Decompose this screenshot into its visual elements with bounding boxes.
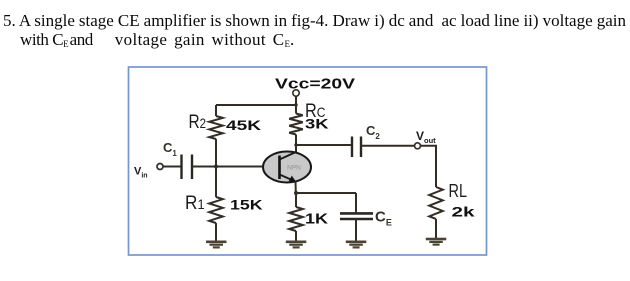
svg-text:45K: 45K [226, 117, 261, 133]
capacitor C1 [182, 155, 193, 180]
svg-text:C2: C2 [366, 123, 380, 141]
ground below RE [286, 241, 307, 249]
resistor R1 [215, 167, 217, 198]
wire: emitter node horizontal [296, 192, 356, 194]
svg-text:R1: R1 [185, 193, 205, 214]
terminal Vcc [293, 90, 299, 96]
svg-text:Vout: Vout [416, 129, 436, 145]
capacitor CE [355, 193, 357, 212]
wire: C1 to base [192, 166, 279, 168]
figure frame [129, 67, 487, 255]
wire: CE to ground [355, 219, 357, 241]
resistor RE 1K [289, 207, 303, 231]
svg-text:1K: 1K [305, 211, 328, 228]
capacitor C2 [352, 137, 361, 158]
terminal Vout [415, 143, 421, 149]
ground below CE [346, 241, 367, 249]
ground below R1 [206, 241, 227, 249]
svg-text:2k: 2k [452, 204, 475, 220]
resistor RC [289, 114, 303, 135]
svg-text:Vcc=20V: Vcc=20V [275, 76, 355, 93]
wire: Vout to RL [421, 146, 437, 187]
svg-text:3K: 3K [305, 116, 329, 132]
svg-text:NPN: NPN [287, 165, 301, 172]
wire: C2 to Vout [361, 145, 415, 147]
svg-text:CE: CE [375, 209, 392, 228]
svg-text:C1: C1 [163, 140, 177, 158]
junction emitter node [294, 191, 298, 195]
wire: Vcc down to RC [295, 96, 297, 113]
wire: RL to ground [435, 219, 437, 238]
wire: RE to ground [295, 231, 297, 241]
wire: top rail from R2 to Vcc line [216, 104, 296, 106]
wire: R2 top stub [215, 105, 217, 116]
svg-text:RL: RL [449, 181, 468, 201]
svg-text:Vin: Vin [134, 166, 148, 180]
resistor R2 [209, 116, 223, 139]
junction collector node [294, 143, 297, 146]
wire: RC bottom to collector [295, 135, 297, 153]
wire: R2 bottom to base node [215, 139, 217, 167]
transistor Q1 [263, 152, 311, 183]
junction top rail [294, 103, 297, 106]
wire: emitter down [295, 182, 297, 194]
node: collector [296, 144, 352, 146]
junction base node [214, 165, 218, 169]
ground below RL [426, 238, 447, 246]
terminal Vin [157, 164, 163, 170]
svg-text:R2: R2 [189, 112, 207, 133]
svg-text:15K: 15K [230, 197, 263, 213]
wire: R1 to ground [215, 223, 217, 241]
wire: Vin to C1 [163, 166, 181, 168]
resistor RL [429, 187, 443, 219]
